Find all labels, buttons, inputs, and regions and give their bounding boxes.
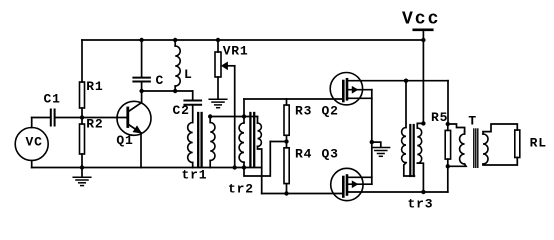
resistor R3 bbox=[286, 99, 288, 105]
tr2 right winding bbox=[257, 117, 259, 124]
mosfet Q3 bbox=[331, 168, 363, 200]
T core bbox=[473, 129, 475, 167]
svg-text:Q1: Q1 bbox=[116, 133, 133, 148]
transformer tr2 left winding bbox=[243, 117, 245, 124]
transformer T bbox=[468, 114, 477, 129]
tr3 right winding bbox=[421, 121, 425, 125]
resistor R1 bbox=[80, 82, 85, 108]
inductor L bbox=[173, 38, 177, 42]
svg-text:C: C bbox=[156, 73, 165, 88]
wire tr1 to tr2 top link bbox=[210, 116, 257, 118]
transistor Q1 bbox=[117, 101, 151, 135]
wire collector to C2 bbox=[142, 90, 193, 92]
power Vcc bbox=[402, 10, 440, 30]
wire Q2 source to Q3 drain bbox=[371, 142, 373, 184]
wire R5 bottom to T primary bottom bbox=[448, 164, 466, 166]
svg-text:VC: VC bbox=[26, 135, 43, 150]
wiper arrow VR1 bbox=[227, 65, 235, 67]
resistor R4 bbox=[286, 142, 288, 148]
svg-text:tr1: tr1 bbox=[182, 168, 208, 183]
wire gate rail bbox=[244, 98, 343, 100]
wire up to gate rail bbox=[243, 99, 245, 117]
svg-text:C1: C1 bbox=[44, 92, 61, 107]
svg-text:VR1: VR1 bbox=[223, 44, 249, 59]
source VC bbox=[15, 128, 48, 161]
resistor R2 bbox=[81, 118, 83, 125]
ground main bbox=[81, 168, 83, 177]
svg-text:Q2: Q2 bbox=[322, 104, 339, 119]
svg-text:tr3: tr3 bbox=[408, 197, 434, 212]
transformer tr3 left winding bbox=[405, 81, 407, 128]
capacitor C1 bbox=[32, 117, 51, 119]
wire bottom rail bbox=[32, 167, 262, 169]
transformer tr1 left winding bbox=[188, 123, 193, 163]
mosfet Q2 bbox=[330, 73, 362, 105]
svg-text:C2: C2 bbox=[173, 103, 190, 118]
tr2 core bbox=[249, 113, 251, 166]
svg-text:R1: R1 bbox=[86, 79, 103, 94]
wire top rail Vcc bbox=[82, 39, 423, 41]
svg-text:R2: R2 bbox=[86, 117, 103, 132]
svg-text:R3: R3 bbox=[295, 104, 312, 119]
wire R5 top to T primary bbox=[448, 124, 465, 132]
svg-text:T: T bbox=[468, 114, 477, 129]
svg-text:Vcc: Vcc bbox=[402, 10, 440, 30]
svg-text:tr2: tr2 bbox=[228, 182, 254, 197]
wire left drop to R1 bbox=[81, 40, 83, 82]
node collector junction bbox=[139, 89, 143, 93]
capacitor C bbox=[139, 38, 143, 42]
tr1 right winding bbox=[209, 117, 211, 123]
ground VR1 bbox=[209, 98, 227, 100]
wire base to Q1 bbox=[82, 117, 127, 119]
wire R5 bottom to Q3 source line bbox=[447, 166, 449, 192]
svg-text:L: L bbox=[184, 67, 193, 82]
svg-text:R4: R4 bbox=[295, 147, 312, 162]
svg-text:RL: RL bbox=[530, 136, 547, 151]
wire Q3 gate line bbox=[262, 193, 343, 195]
wire node X link bbox=[270, 141, 286, 143]
tr1 core bbox=[197, 113, 199, 167]
svg-text:R5: R5 bbox=[431, 110, 448, 125]
node Q2 source junction bbox=[370, 140, 374, 144]
resistor RL bbox=[515, 130, 520, 158]
potentiometer VR1 bbox=[216, 38, 220, 42]
T secondary bbox=[483, 134, 488, 164]
svg-text:Q3: Q3 bbox=[322, 147, 339, 162]
resistor R5 bbox=[447, 81, 449, 124]
capacitor C2 bbox=[192, 91, 194, 100]
node tr3 top junction bbox=[404, 79, 408, 83]
node base junction bbox=[80, 115, 84, 119]
node ground junction bbox=[80, 165, 84, 169]
tr3 core bbox=[409, 125, 411, 176]
ground Q2 source bbox=[372, 142, 381, 147]
